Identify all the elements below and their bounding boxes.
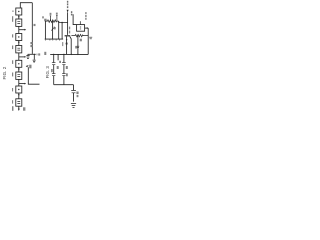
- right rail vertical: [87, 28, 89, 54]
- wire L-shape lower left: [28, 67, 39, 84]
- rotated input label: [67, 1, 72, 16]
- capacitor at detector left: [26, 56, 29, 59]
- rotated label column 2: [85, 12, 86, 20]
- capacitor branch B upper: [63, 54, 65, 62]
- stage label text column (rotated tiny labels): [12, 11, 13, 111]
- stage block 8: [16, 99, 22, 106]
- ref numeral 70: [80, 39, 82, 42]
- wire jog to junction: [59, 21, 68, 22]
- wire link 4-5: [18, 53, 20, 60]
- node dots on mid rail: [53, 54, 54, 55]
- ref numeral 82: [76, 92, 78, 95]
- transformer box T1: [77, 25, 85, 32]
- stage block 5: [16, 60, 22, 67]
- wire link 7-8: [18, 93, 20, 99]
- stage block 1: [16, 8, 22, 15]
- ref numeral 76: [75, 46, 77, 49]
- capacitor C bias plates: [77, 46, 80, 48]
- stage block 6: [16, 72, 22, 79]
- wire vertical drop a: [44, 21, 46, 39]
- stage block 4: [16, 46, 22, 53]
- wire link 1-2: [18, 15, 20, 19]
- capacitor branch A upper: [53, 54, 55, 62]
- label 17 output: [23, 107, 25, 110]
- svg-text:FIG. 3: FIG. 3: [45, 66, 50, 79]
- wire tap arrow 3: [19, 83, 25, 85]
- wire link 2-3: [18, 26, 20, 33]
- svg-text:FIG. 2: FIG. 2: [2, 66, 7, 79]
- input terminal lead 1 with ref: [50, 13, 52, 15]
- ref numeral 78: [66, 66, 68, 69]
- ref numeral 74: [57, 66, 59, 69]
- wire vertical drop c: [58, 21, 60, 39]
- wire link 5-6: [18, 67, 20, 72]
- input terminal lead 2 with ref: [56, 13, 58, 15]
- ref numeral 66: [62, 42, 63, 46]
- ground hatch ticks: [46, 39, 60, 41]
- wire link 3-4: [18, 41, 20, 46]
- node junction dot: [61, 22, 63, 24]
- stage block 2: [16, 19, 22, 26]
- ground symbol bottom: [71, 104, 76, 108]
- wire link 6-7: [18, 79, 20, 86]
- resistor R top horizontal: [45, 20, 58, 23]
- capacitor at right rail: [89, 37, 92, 39]
- ref numeral 43 floating: [42, 16, 44, 18]
- stage block 7: [16, 86, 22, 93]
- wire vertical drop d: [61, 23, 63, 40]
- ref numeral 64 beside line: [69, 27, 70, 34]
- ref numeral left of bus: [30, 42, 32, 44]
- capacitor branch A lower: [53, 65, 55, 74]
- wire box right lead to rail: [85, 27, 89, 29]
- ref numeral 58: [36, 54, 39, 56]
- transistor Q1 base bar: [65, 35, 71, 36]
- stub lead on mid rail: [57, 54, 59, 60]
- ref numeral 56: [54, 27, 56, 29]
- wire box left lead: [73, 14, 77, 24]
- stage block 3: [16, 34, 22, 41]
- wire bias vertical: [77, 36, 79, 55]
- FIG.2 detector rail: [28, 53, 36, 55]
- wire tap arrow 2: [19, 56, 25, 58]
- emitter bead component: [66, 42, 68, 45]
- ground rail upper: [45, 38, 63, 40]
- transistor emitter lead: [66, 36, 68, 54]
- wire top feed from stage block 1 to bus: [20, 3, 32, 8]
- ref numeral 20 near bus: [34, 24, 36, 26]
- leader arrow into L-wire: [26, 66, 28, 67]
- input line vertical with arrow: [67, 12, 69, 35]
- bottom rail: [54, 84, 74, 86]
- ground at detector right: [33, 54, 35, 59]
- ref numeral with leader near block 5/6: [26, 65, 28, 66]
- capacitor branch B lower: [63, 65, 65, 74]
- wire tap arrow 1: [19, 29, 25, 31]
- output capacitor C out: [73, 85, 75, 91]
- resistor R collector horizontal: [71, 34, 88, 36]
- mid rail horizontal: [50, 53, 88, 55]
- wire vertical bus: [31, 3, 33, 54]
- wire output arrow below block 8: [18, 106, 20, 110]
- transistor collector lead: [70, 36, 71, 54]
- ref numeral 62: [44, 19, 46, 22]
- ref numeral 72 left of mid rail: [44, 52, 46, 55]
- wire vertical drop b with arrow: [52, 21, 54, 39]
